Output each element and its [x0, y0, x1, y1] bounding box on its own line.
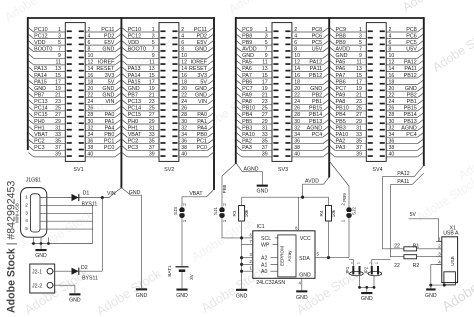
svg-text:37: 37 — [262, 145, 268, 151]
svg-text:GND: GND — [296, 295, 308, 301]
svg-text:PB8: PB8 — [242, 33, 252, 39]
SV1 pin 31 net PH1 (left row) — [28, 125, 71, 131]
SV1 pin 40 net nc (right row) — [79, 152, 121, 158]
SV1 pin 23 net PC13 (left row) — [28, 99, 71, 105]
SV2 pin 33 net VBAT (left row) — [122, 132, 166, 138]
svg-text:13: 13 — [55, 66, 61, 72]
svg-text:30: 30 — [88, 119, 94, 125]
solder jumper SJ3 — [173, 203, 187, 223]
SV1 pin 14 net RESET (right row) — [79, 66, 121, 72]
SV3 pin 40 net nc (right row) — [285, 152, 328, 158]
wire battery to ground — [181, 272, 183, 289]
svg-text:38: 38 — [294, 145, 300, 151]
svg-text:GND: GND — [102, 86, 114, 92]
svg-text:AVDD: AVDD — [242, 47, 257, 53]
SV3 pin 35 net PA2 (left row) — [236, 139, 278, 145]
SV3 pin 16 net PB12 (right row) — [285, 73, 328, 79]
svg-text:USB: USB — [450, 256, 455, 265]
SV4 pin 24 net PB1 (right row) — [380, 99, 424, 105]
svg-text:GND: GND — [34, 86, 46, 92]
SV2 pin 36 net PC1 (right row) — [172, 139, 213, 145]
svg-text:23: 23 — [149, 99, 155, 105]
svg-text:35: 35 — [262, 139, 268, 145]
IC1 24LC32ASN EEPROM — [253, 224, 315, 286]
svg-text:13: 13 — [356, 66, 362, 72]
svg-text:6: 6 — [294, 40, 297, 46]
SV3 pin 9 net GND (left row) — [236, 53, 278, 59]
svg-text:33: 33 — [149, 132, 155, 138]
junction A1 — [240, 263, 243, 266]
svg-text:9: 9 — [152, 53, 155, 59]
svg-text:7: 7 — [265, 47, 268, 53]
svg-text:18: 18 — [389, 79, 395, 85]
wire: bus SV1/SV2 — [120, 17, 122, 188]
SV2 pin 37 net PC3 (left row) — [122, 145, 166, 151]
svg-text:27: 27 — [262, 112, 268, 118]
SV2 pin 9 net nc (left row) — [122, 53, 166, 59]
svg-text:PA7: PA7 — [336, 73, 346, 79]
svg-text:GND: GND — [310, 86, 322, 92]
SV4 pin 31 net PB3 (left row) — [330, 125, 373, 131]
svg-text:J2-1: J2-1 — [32, 269, 42, 275]
IC1 pin 5 SDA — [299, 251, 349, 262]
svg-text:VBAT: VBAT — [34, 132, 48, 138]
svg-text:14: 14 — [294, 66, 300, 72]
ground (VIN side) — [136, 288, 148, 299]
SV3 pin 12 net PA12 (right row) — [285, 60, 328, 66]
diode D1 BYS11 — [68, 191, 102, 208]
SV2 pin 35 net PC2 (left row) — [122, 139, 166, 145]
SV1 pin 5 net VDD (left row) — [28, 40, 71, 46]
svg-text:VBAT: VBAT — [128, 132, 142, 138]
svg-text:4: 4 — [389, 33, 392, 39]
svg-text:14: 14 — [88, 66, 94, 72]
SV2 pin 5 net VDD (left row) — [122, 40, 166, 46]
svg-text:5: 5 — [265, 40, 268, 46]
svg-text:39: 39 — [262, 152, 268, 158]
SV3 pin 11 net PA5 (left row) — [236, 60, 278, 66]
SV3 pin 8 net U5V (right row) — [285, 47, 328, 53]
svg-text:IOREF: IOREF — [98, 60, 115, 66]
ground (JP1/JP2) — [361, 287, 373, 302]
svg-text:PA12: PA12 — [404, 60, 417, 66]
svg-text:PA14: PA14 — [34, 73, 47, 79]
svg-text:37: 37 — [356, 145, 362, 151]
svg-text:PC1: PC1 — [197, 139, 208, 145]
ground (AGND) — [257, 185, 269, 195]
svg-text:PD2: PD2 — [197, 33, 208, 39]
svg-text:PA1: PA1 — [197, 119, 207, 125]
svg-text:D2: D2 — [81, 265, 88, 271]
svg-text:32: 32 — [181, 125, 187, 131]
svg-text:21: 21 — [356, 93, 362, 99]
svg-text:23: 23 — [356, 99, 362, 105]
svg-text:35: 35 — [356, 139, 362, 145]
wire PA11 from bus right of SV4 — [391, 173, 424, 257]
svg-text:31: 31 — [262, 125, 268, 131]
SV4 pin 32 net AGND (right row) — [380, 125, 424, 131]
svg-text:22: 22 — [181, 93, 187, 99]
svg-text:38: 38 — [88, 145, 94, 151]
svg-text:11: 11 — [149, 60, 154, 66]
svg-text:PB10: PB10 — [336, 106, 349, 112]
SV1 pin 2 net PC11 (right row) — [79, 27, 121, 33]
svg-text:GND: GND — [425, 293, 437, 299]
wire PB9 from bus SV3/SV4 — [329, 161, 349, 207]
J1 pin 5 — [25, 226, 92, 232]
svg-text:PB5: PB5 — [336, 119, 346, 125]
svg-text:5: 5 — [359, 40, 362, 46]
junction X1 ground — [429, 284, 432, 287]
SV1 pin 19 net GND (left row) — [28, 86, 71, 92]
svg-text:5V: 5V — [200, 79, 207, 85]
SV3 pin 36 net nc (right row) — [285, 139, 328, 145]
SV2 pin 23 net PC13 (left row) — [122, 99, 166, 105]
svg-text:1: 1 — [222, 219, 227, 222]
svg-text:PC8: PC8 — [312, 27, 323, 33]
svg-text:GND: GND — [129, 190, 141, 196]
junction SCL — [240, 236, 243, 239]
svg-text:28: 28 — [88, 112, 94, 118]
SV1 pin 9 net nc (left row) — [28, 53, 71, 59]
svg-text:24: 24 — [181, 99, 187, 105]
svg-text:PB2: PB2 — [312, 93, 322, 99]
svg-text:18: 18 — [181, 79, 187, 85]
SV2 pin 20 net GND (right row) — [172, 86, 213, 92]
svg-text:PA11: PA11 — [404, 66, 416, 72]
svg-text:1: 1 — [359, 27, 362, 33]
SV3 pin 10 net nc (right row) — [285, 53, 328, 59]
svg-text:PB6: PB6 — [336, 79, 346, 85]
junction VIN node — [101, 196, 104, 199]
ground (IC1) — [296, 290, 308, 301]
svg-text:31: 31 — [356, 125, 362, 131]
SV3 pin 33 net PA10 (left row) — [236, 132, 278, 138]
svg-text:11: 11 — [262, 60, 267, 66]
svg-text:PB10: PB10 — [242, 106, 255, 112]
SV3 pin 29 net PB5 (left row) — [236, 119, 278, 125]
svg-text:22: 22 — [88, 93, 94, 99]
SV1 pin 24 net VIN (right row) — [79, 99, 121, 105]
svg-text:PB13: PB13 — [404, 119, 417, 125]
SV1 pin 6 net E5V (right row) — [79, 40, 121, 46]
svg-text:GND: GND — [299, 273, 311, 279]
wire JP2 to PA11 line — [372, 260, 391, 266]
svg-text:USB A: USB A — [443, 231, 459, 237]
svg-text:10k: 10k — [331, 209, 336, 217]
svg-text:PA8: PA8 — [242, 99, 252, 105]
svg-text:1: 1 — [375, 262, 379, 264]
svg-text:23: 23 — [262, 99, 268, 105]
svg-text:PC15: PC15 — [128, 112, 142, 118]
svg-text:24: 24 — [88, 99, 94, 105]
svg-text:12: 12 — [389, 60, 395, 66]
svg-text:35: 35 — [149, 139, 155, 145]
connector J1G$1 mini-USB — [15, 177, 47, 237]
SV2 pin 39 net nc (left row) — [122, 152, 166, 158]
SV3 pin 5 net PB9 (left row) — [236, 40, 278, 46]
svg-text:PA10: PA10 — [242, 132, 255, 138]
svg-text:PH0: PH0 — [34, 119, 45, 125]
svg-text:GND: GND — [102, 93, 114, 99]
svg-text:38: 38 — [389, 145, 395, 151]
junction SDA/R4 — [327, 256, 330, 259]
SV1 pin 11 net nc (left row) — [28, 60, 71, 66]
wire J2-1 to D2 — [53, 270, 72, 272]
svg-text:PA4: PA4 — [105, 125, 115, 131]
junction A0 — [240, 270, 243, 273]
svg-text:1: 1 — [152, 27, 155, 33]
svg-text:PB3: PB3 — [242, 125, 252, 131]
svg-text:16: 16 — [181, 73, 187, 79]
svg-text:R2: R2 — [413, 263, 420, 269]
svg-text:PA9: PA9 — [242, 93, 252, 99]
SV4 pin 36 net nc (right row) — [380, 139, 424, 145]
svg-text:PA5: PA5 — [336, 60, 346, 66]
svg-text:4: 4 — [294, 33, 297, 39]
svg-text:JP2: JP2 — [363, 266, 368, 274]
svg-text:5: 5 — [58, 40, 61, 46]
svg-text:GND: GND — [405, 86, 417, 92]
svg-text:19: 19 — [356, 86, 362, 92]
svg-text:PC9: PC9 — [242, 27, 253, 33]
wire: bus right of SV4 — [423, 17, 425, 166]
ground (USB shield) — [35, 244, 47, 259]
svg-text:17: 17 — [55, 79, 61, 85]
svg-text:SJ2: SJ2 — [352, 207, 357, 215]
SV2 pin 12 net IOREF (right row) — [172, 60, 213, 66]
svg-text:PC9: PC9 — [336, 27, 347, 33]
svg-text:PB15: PB15 — [309, 106, 322, 112]
connector SV3 body — [272, 23, 292, 162]
SV4 pin 4 net PC6 (right row) — [380, 33, 424, 39]
svg-text:6: 6 — [181, 40, 184, 46]
wire X1 pin 4 to ground — [431, 265, 442, 286]
svg-text:1: 1 — [265, 27, 268, 33]
SV4 pin 39 net nc (left row) — [330, 152, 373, 158]
J1 pin 1 — [25, 195, 68, 201]
IC1 pin 4 GND — [298, 273, 311, 291]
svg-text:PA7: PA7 — [242, 73, 252, 79]
svg-text:PA6: PA6 — [242, 66, 252, 72]
SV3 pin 22 net PB2 (right row) — [285, 93, 328, 99]
svg-text:PC5: PC5 — [312, 40, 323, 46]
SV2 pin 40 net nc (right row) — [172, 152, 213, 158]
IC1 pin 7 WP — [242, 239, 278, 249]
svg-text:PC2: PC2 — [34, 139, 45, 145]
svg-text:31: 31 — [149, 125, 155, 131]
SV3 pin 6 net PC5 (right row) — [285, 40, 328, 46]
svg-text:15: 15 — [356, 73, 362, 79]
svg-text:E5V: E5V — [197, 40, 208, 46]
svg-text:U5V: U5V — [312, 47, 323, 53]
svg-text:4: 4 — [88, 33, 91, 39]
SV1 pin 13 net PA13 (left row) — [28, 66, 71, 72]
connector SV4 body — [366, 23, 386, 162]
SV2 pin 2 net PC11 (right row) — [172, 27, 213, 33]
svg-text:20: 20 — [88, 86, 94, 92]
svg-text:27: 27 — [149, 112, 155, 118]
svg-text:34: 34 — [294, 132, 300, 138]
SV4 pin 18 net nc (right row) — [380, 79, 424, 85]
SV1 pin 15 net PA14 (left row) — [28, 73, 71, 79]
wire 5V to X1 pin 1 — [409, 219, 442, 242]
wire: top bus rail right — [236, 17, 424, 19]
SV2 pin 10 net nc (right row) — [172, 53, 213, 59]
resistor R2 22 — [394, 255, 442, 270]
SV4 pin 11 net PA5 (left row) — [330, 60, 373, 66]
node VIN taper from bus — [102, 188, 121, 198]
wire PB8 from bus left of SV3 — [222, 163, 236, 207]
svg-text:3: 3 — [359, 33, 362, 39]
svg-text:10: 10 — [181, 53, 187, 59]
svg-text:13: 13 — [262, 66, 268, 72]
svg-text:26: 26 — [389, 106, 395, 112]
svg-text:R4: R4 — [319, 210, 324, 216]
SV2 pin 31 net PH1 (left row) — [122, 125, 166, 131]
SV2 pin 30 net PA1 (right row) — [172, 119, 213, 125]
svg-text:VBAT: VBAT — [189, 191, 203, 197]
svg-text:EEPROM: EEPROM — [280, 246, 285, 266]
svg-text:VCC: VCC — [300, 236, 311, 242]
IC1 pin 8 VCC — [295, 197, 311, 242]
junction X1 shield ground — [443, 284, 446, 287]
connector SV1 body — [65, 23, 85, 162]
SV2 pin 13 net PA13 (left row) — [122, 66, 166, 72]
SV4 pin 29 net PB5 (left row) — [330, 119, 373, 125]
SV4 pin 40 net nc (right row) — [380, 152, 424, 158]
svg-text:PA11: PA11 — [310, 66, 322, 72]
svg-text:BOOT0: BOOT0 — [128, 47, 146, 53]
svg-text:PC10: PC10 — [128, 27, 142, 33]
connector J2 — [30, 264, 55, 293]
svg-text:38: 38 — [181, 145, 187, 151]
svg-text:26: 26 — [294, 106, 300, 112]
svg-text:AGND: AGND — [307, 125, 323, 131]
svg-text:PB7: PB7 — [34, 93, 44, 99]
wire SJ2 to SDA — [348, 218, 350, 258]
svg-text:10: 10 — [294, 53, 300, 59]
svg-text:22: 22 — [389, 93, 395, 99]
wire: top bus rail left — [28, 17, 214, 19]
diode D2 BYS11 — [72, 265, 103, 281]
SV1 pin 37 net PC3 (left row) — [28, 145, 71, 151]
svg-text:34: 34 — [181, 132, 187, 138]
svg-text:30: 30 — [294, 119, 300, 125]
svg-text:37: 37 — [55, 145, 61, 151]
svg-text:17: 17 — [149, 79, 155, 85]
SV1 pin 4 net PD2 (right row) — [79, 33, 121, 39]
svg-text:PB14: PB14 — [309, 112, 322, 118]
wire AGND from bus left of SV3 — [236, 163, 262, 185]
svg-text:21: 21 — [55, 93, 61, 99]
svg-text:19: 19 — [262, 86, 268, 92]
SV4 pin 6 net PC5 (right row) — [380, 40, 424, 46]
svg-text:PA13: PA13 — [128, 66, 141, 72]
X1 pin 1 — [436, 236, 442, 242]
svg-text:21: 21 — [262, 93, 268, 99]
svg-text:40: 40 — [389, 152, 395, 158]
svg-text:BOOT0: BOOT0 — [34, 47, 52, 53]
SV2 pin 3 net PC12 (left row) — [122, 33, 166, 39]
SV4 pin 26 net PB15 (right row) — [380, 106, 424, 112]
svg-text:VDD: VDD — [128, 40, 139, 46]
svg-text:PB7: PB7 — [128, 93, 138, 99]
svg-text:12: 12 — [88, 60, 94, 66]
svg-text:GND: GND — [195, 47, 207, 53]
SV1 pin 32 net PA4 (right row) — [79, 125, 121, 131]
svg-text:39: 39 — [55, 152, 61, 158]
svg-text:PH1: PH1 — [34, 125, 45, 131]
svg-text:PA9: PA9 — [336, 93, 346, 99]
SV2 pin 14 net RESET (right row) — [172, 66, 213, 72]
svg-text:39: 39 — [356, 152, 362, 158]
svg-text:21: 21 — [149, 93, 155, 99]
svg-text:37: 37 — [149, 145, 155, 151]
svg-text:1: 1 — [438, 236, 441, 242]
svg-text:4: 4 — [25, 218, 28, 224]
svg-text:PA2: PA2 — [242, 139, 252, 145]
svg-text:36: 36 — [181, 139, 187, 145]
svg-text:Array: Array — [287, 250, 292, 262]
svg-text:29: 29 — [55, 119, 61, 125]
SV3 pin 7 net AVDD (left row) — [236, 47, 278, 53]
wire: bus left of SV1 — [27, 17, 29, 150]
svg-text:18: 18 — [294, 79, 300, 85]
svg-text:10k: 10k — [244, 209, 249, 217]
SV3 pin 18 net nc (right row) — [285, 79, 328, 85]
SV2 pin 29 net PH0 (left row) — [122, 119, 166, 125]
svg-text:PB4: PB4 — [336, 112, 346, 118]
SV1 pin 21 net PB7 (left row) — [28, 93, 71, 99]
IC1 pin 3 A2 — [242, 252, 278, 262]
ground (R3/address pins) — [236, 289, 248, 300]
SV4 pin 3 net PB8 (left row) — [330, 33, 373, 39]
IC1 pin 1 A0 — [242, 266, 278, 276]
svg-text:8: 8 — [181, 47, 184, 53]
wire: bus right of SV2 — [213, 17, 215, 190]
svg-text:PA4: PA4 — [197, 125, 207, 131]
SV2 pin 4 net PD2 (right row) — [172, 33, 213, 39]
svg-text:8: 8 — [389, 47, 392, 53]
connector SV2 body — [159, 23, 179, 162]
svg-text:20: 20 — [294, 86, 300, 92]
SV1 pin 22 net GND (right row) — [79, 93, 121, 99]
SV4 pin 19 net PC7 (left row) — [330, 86, 373, 92]
SV4 pin 13 net PA6 (left row) — [330, 66, 373, 72]
SV3 pin 26 net PB15 (right row) — [285, 106, 328, 112]
svg-text:3V3: 3V3 — [197, 73, 207, 79]
SV1 pin 12 net IOREF (right row) — [79, 60, 121, 66]
svg-text:5V: 5V — [108, 79, 115, 85]
ground (J2) — [69, 293, 81, 303]
SV2 pin 32 net PA4 (right row) — [172, 125, 213, 131]
svg-text:PA13: PA13 — [34, 66, 47, 72]
SV4 pin 22 net PB2 (right row) — [380, 93, 424, 99]
SV4 pin 28 net PB14 (right row) — [380, 112, 424, 118]
svg-text:PA5: PA5 — [242, 60, 252, 66]
svg-text:36: 36 — [88, 139, 94, 145]
svg-text:35: 35 — [55, 139, 61, 145]
svg-text:28: 28 — [294, 112, 300, 118]
svg-text:3: 3 — [25, 210, 28, 216]
svg-text:GND: GND — [35, 253, 47, 259]
connector X1 USB A — [442, 225, 459, 282]
SV1 pin 38 net PC0 (right row) — [79, 145, 121, 151]
wire J2-2 to ground — [53, 285, 75, 293]
svg-text:17: 17 — [262, 79, 268, 85]
svg-text:16: 16 — [294, 73, 300, 79]
